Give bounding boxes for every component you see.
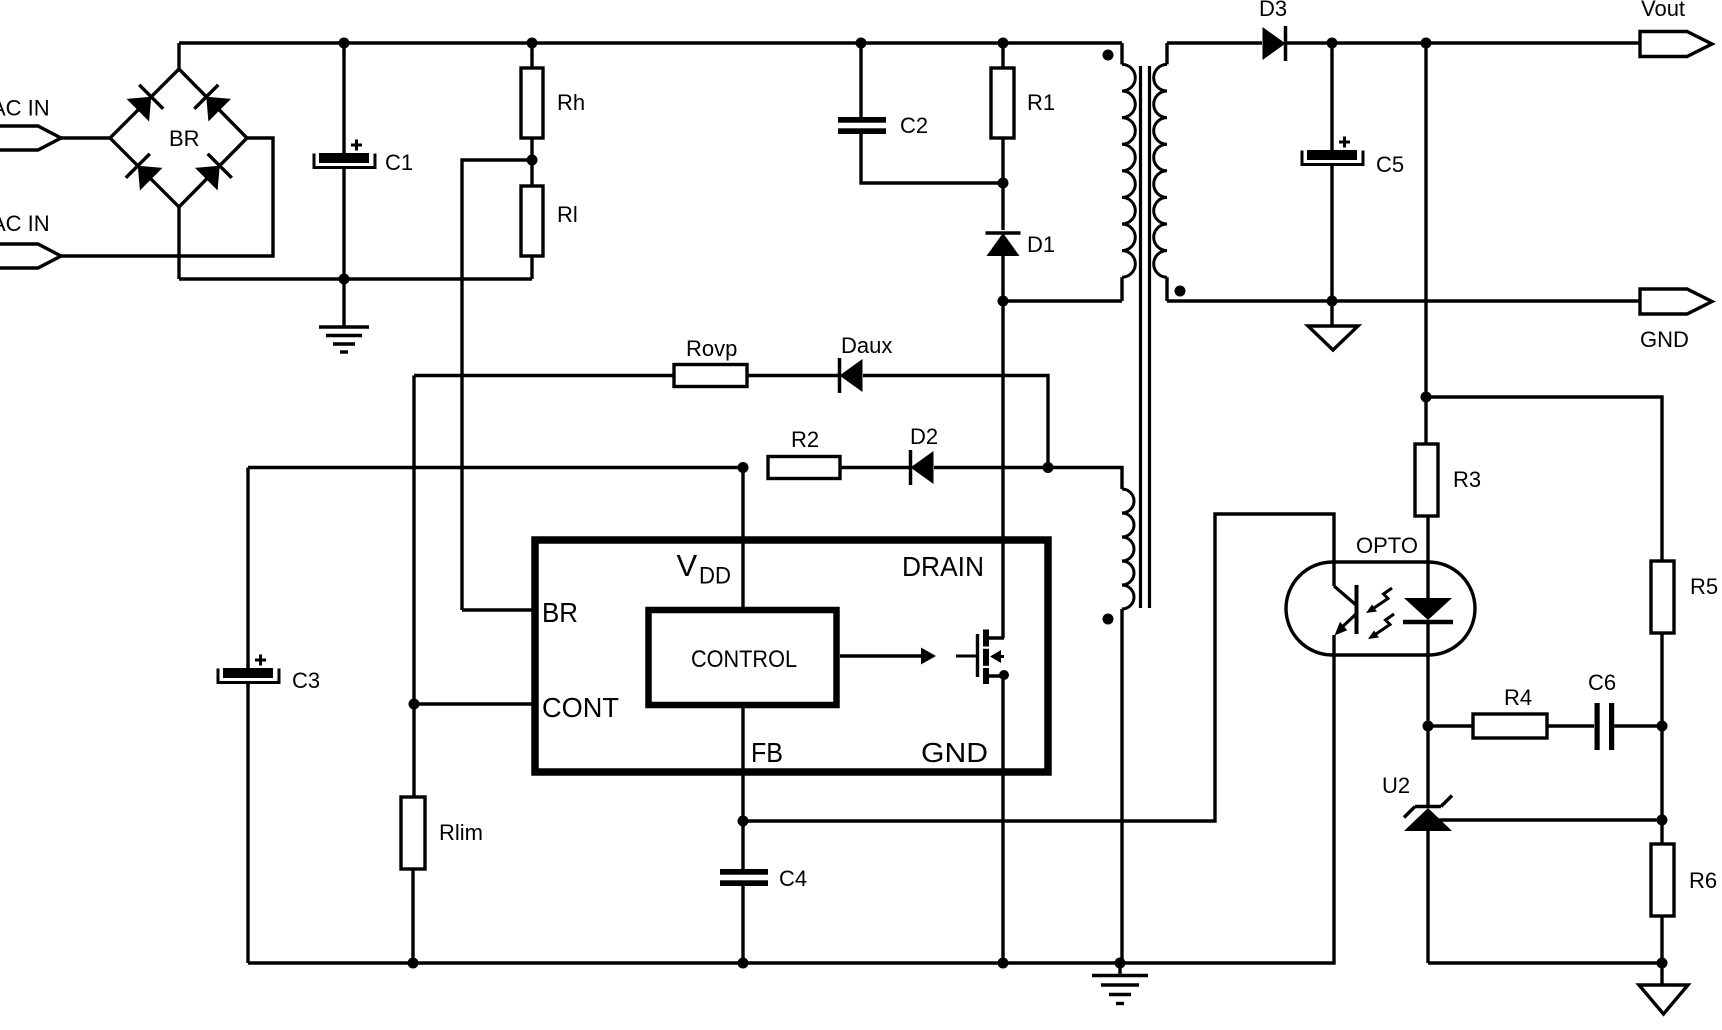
wire VDD pin — [741, 468, 744, 611]
resistor R4 — [1473, 714, 1547, 738]
wire top rail (rectified DC bus) — [179, 41, 1122, 44]
primary phase dot — [1103, 50, 1114, 61]
svg-text:GND: GND — [921, 737, 988, 768]
svg-text:Rlim: Rlim — [439, 820, 483, 845]
wire secondary top to D3 — [1167, 41, 1262, 44]
opto phototransistor — [1355, 585, 1359, 634]
svg-text:R4: R4 — [1504, 685, 1532, 710]
connector Vout — [1640, 32, 1712, 57]
node R2/VDD — [738, 462, 749, 473]
wire Rh-Rl — [530, 138, 533, 186]
svg-text:DRAIN: DRAIN — [902, 551, 984, 582]
wire FB to opto — [743, 514, 1334, 821]
wire CONTROL output arrow — [840, 654, 921, 657]
optocoupler OPTO body — [1286, 562, 1475, 655]
CONTROL block — [649, 610, 837, 705]
wire BR pin — [462, 608, 535, 611]
transistor Q1 (internal MOSFET) — [956, 655, 978, 658]
diode D1 — [1001, 183, 1004, 230]
transformer primary winding — [1120, 43, 1123, 64]
wire R4 to C6 — [1547, 724, 1594, 727]
wire AC IN 1 to bridge — [61, 136, 110, 139]
node C5/Vout rail — [1327, 38, 1338, 49]
wire to R4 — [1428, 724, 1473, 727]
svg-text:R3: R3 — [1453, 467, 1481, 492]
shunt regulator U2 — [1415, 805, 1441, 808]
node C4/bottom rail — [738, 958, 749, 969]
capacitor C1 (electrolytic) — [342, 43, 345, 153]
connector AC IN 2 — [0, 244, 61, 268]
svg-text:FB: FB — [751, 737, 783, 768]
node C1 bottom — [339, 274, 350, 285]
resistor Rl — [521, 186, 543, 256]
svg-text:C4: C4 — [779, 866, 807, 891]
svg-text:R6: R6 — [1689, 868, 1717, 893]
node FB — [738, 816, 749, 827]
transformer secondary winding — [1165, 43, 1168, 64]
resistor R5 — [1651, 561, 1674, 633]
node C2/top rail — [856, 38, 867, 49]
ground (earth) below C1 — [342, 279, 345, 327]
wire R5 bottom — [1660, 633, 1663, 844]
ground (triangle) secondary — [1660, 963, 1663, 985]
resistor Rlim — [401, 797, 425, 869]
diode BR top-left — [127, 97, 152, 122]
resistor R2 — [768, 457, 840, 479]
node C6/R5 — [1657, 721, 1668, 732]
node D1/primary bottom — [998, 296, 1009, 307]
svg-text:R1: R1 — [1027, 90, 1055, 115]
resistor Rh — [530, 43, 533, 68]
diode BR bottom-right — [195, 166, 220, 191]
diode BR top-right — [206, 97, 231, 122]
svg-text:DD: DD — [699, 563, 731, 590]
node R5/R6 divider — [1657, 815, 1668, 826]
transformer core — [1139, 66, 1142, 608]
svg-text:D2: D2 — [910, 424, 938, 449]
wire lower return rail — [179, 277, 532, 280]
wire bridge + output to top rail — [177, 43, 180, 69]
capacitor C5 (electrolytic) — [1330, 43, 1333, 150]
svg-text:R5: R5 — [1690, 574, 1718, 599]
wire U2 reference to divider — [1438, 818, 1662, 821]
wire secondary GND rail — [1167, 299, 1640, 302]
diode D2 — [911, 451, 934, 484]
node C2/R1 — [998, 178, 1009, 189]
op-amp U1 controller IC box — [535, 540, 1048, 772]
svg-text:BR: BR — [542, 597, 578, 628]
ground (earth) primary — [1118, 963, 1121, 976]
wire Rovp net left — [414, 374, 674, 377]
connector AC IN 1 — [0, 126, 61, 150]
wire AC IN 2 to bridge right vertex — [61, 138, 273, 256]
wire R2 to D2 — [840, 466, 910, 469]
svg-text:D3: D3 — [1259, 0, 1287, 21]
svg-text:C2: C2 — [900, 113, 928, 138]
wire C2 bottom to R1 line — [861, 134, 1003, 183]
wire D2 to aux junction — [934, 466, 1048, 469]
svg-text:R2: R2 — [791, 427, 819, 452]
node Rlim/bottom rail — [408, 958, 419, 969]
wire junction to BR pin branch — [462, 160, 532, 610]
svg-text:Daux: Daux — [841, 333, 892, 358]
node R3/R5 branch — [1421, 392, 1432, 403]
wire to primary bottom — [1003, 299, 1122, 302]
node GND pin/bottom rail — [998, 958, 1009, 969]
node R1/top rail — [998, 38, 1009, 49]
bridge rectifier BR — [110, 69, 247, 207]
capacitor C2 — [859, 43, 862, 117]
opto light arrows — [1371, 588, 1392, 610]
svg-text:C5: C5 — [1376, 152, 1404, 177]
wire branch to R5 — [1426, 397, 1662, 561]
node CONT/Rlim — [409, 699, 420, 710]
svg-text:Vout: Vout — [1641, 0, 1685, 21]
node R3 branch/Vout rail — [1421, 38, 1432, 49]
node R6/secondary ground rail — [1657, 958, 1668, 969]
node D2/Daux/aux — [1043, 462, 1054, 473]
capacitor C3 (electrolytic) — [246, 468, 249, 669]
svg-text:C1: C1 — [385, 150, 413, 175]
svg-text:U2: U2 — [1382, 773, 1410, 798]
wire CONT pin — [414, 702, 535, 705]
svg-text:AC IN: AC IN — [0, 211, 50, 236]
resistor R3 — [1415, 444, 1438, 516]
capacitor C6 — [1595, 703, 1600, 750]
wire source to GND pin — [1001, 676, 1004, 963]
svg-text:C3: C3 — [292, 668, 320, 693]
svg-text:OPTO: OPTO — [1356, 533, 1418, 558]
wire Rl bottom — [530, 256, 533, 279]
wire D3 to Vout — [1286, 41, 1640, 44]
wire primary bottom rail — [248, 635, 1334, 963]
wire FB pin down — [741, 705, 744, 869]
svg-text:BR: BR — [169, 126, 200, 151]
svg-text:CONT: CONT — [542, 692, 619, 723]
node C1/top rail — [339, 38, 350, 49]
svg-text:Rl: Rl — [557, 202, 578, 227]
wire Vout sense branch — [1424, 43, 1427, 444]
wire Daux down to aux winding net — [863, 376, 1048, 468]
node R4/LED/U2 — [1423, 721, 1434, 732]
node aux/bottom rail — [1115, 958, 1126, 969]
svg-text:Rovp: Rovp — [686, 336, 737, 361]
svg-text:AC IN: AC IN — [0, 96, 50, 121]
secondary phase dot — [1175, 286, 1186, 297]
node Rh/top rail — [527, 38, 538, 49]
node MOSFET source/body — [999, 670, 1009, 680]
aux phase dot — [1103, 614, 1114, 625]
wire DRAIN net — [1001, 301, 1004, 638]
opto LED — [1426, 516, 1429, 598]
svg-text:CONTROL: CONTROL — [691, 646, 797, 673]
wire VDD net (C3 to R2 junction) — [248, 466, 743, 469]
resistor R6 — [1651, 844, 1674, 916]
wire Rovp to Daux — [747, 374, 839, 377]
transformer auxiliary winding — [1048, 468, 1122, 490]
svg-text:GND: GND — [1640, 327, 1689, 352]
node C5/GND rail — [1327, 296, 1338, 307]
svg-text:Rh: Rh — [557, 90, 585, 115]
diode D3 — [1263, 27, 1286, 60]
wire secondary bottom rail — [1428, 961, 1662, 964]
diode BR bottom-left — [138, 166, 163, 191]
wire Rovp vertical / Rlim top — [412, 376, 415, 798]
diode Daux — [840, 359, 863, 392]
svg-text:V: V — [677, 548, 698, 583]
svg-text:C6: C6 — [1588, 670, 1616, 695]
ground (triangle) below C5 — [1330, 301, 1333, 326]
resistor Rovp — [674, 365, 747, 387]
node Rh/Rl junction — [527, 155, 538, 166]
wire bridge - output down — [177, 207, 180, 279]
svg-text:D1: D1 — [1027, 232, 1055, 257]
resistor R1 — [1001, 43, 1004, 68]
capacitor C4 — [720, 869, 768, 875]
connector GND — [1640, 289, 1712, 314]
wire opto LED cathode to U2 — [1426, 726, 1429, 807]
